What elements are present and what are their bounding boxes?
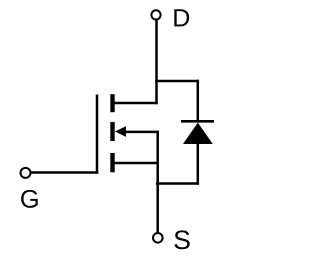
wire diode cathode vertical (197, 80, 200, 122)
wire source vertical (156, 131, 159, 234)
MOSFET Q1 body contact bar (110, 122, 114, 141)
label S (174, 230, 189, 249)
terminal G (21, 168, 31, 178)
label D (174, 9, 189, 26)
wire diode-to-source horizontal (156, 182, 199, 185)
wire drain-to-diode horizontal (155, 80, 199, 83)
diode D1 anode triangle (183, 123, 213, 144)
MOSFET Q1 gate line (96, 95, 99, 174)
diode D1 cathode bar (181, 120, 214, 123)
label G (21, 190, 38, 208)
wire body stub (123, 131, 159, 134)
wire diode anode vertical (197, 143, 200, 185)
wire gate horizontal (31, 171, 99, 174)
MOSFET Q1 source contact bar (110, 153, 114, 172)
terminal D (151, 10, 160, 19)
wire drain stub (112, 102, 158, 105)
terminal S (153, 233, 163, 243)
wire source stub (112, 162, 158, 165)
MOSFET Q1 body arrow (115, 126, 126, 137)
MOSFET Q1 drain contact bar (110, 94, 114, 112)
wire drain vertical (155, 20, 158, 104)
